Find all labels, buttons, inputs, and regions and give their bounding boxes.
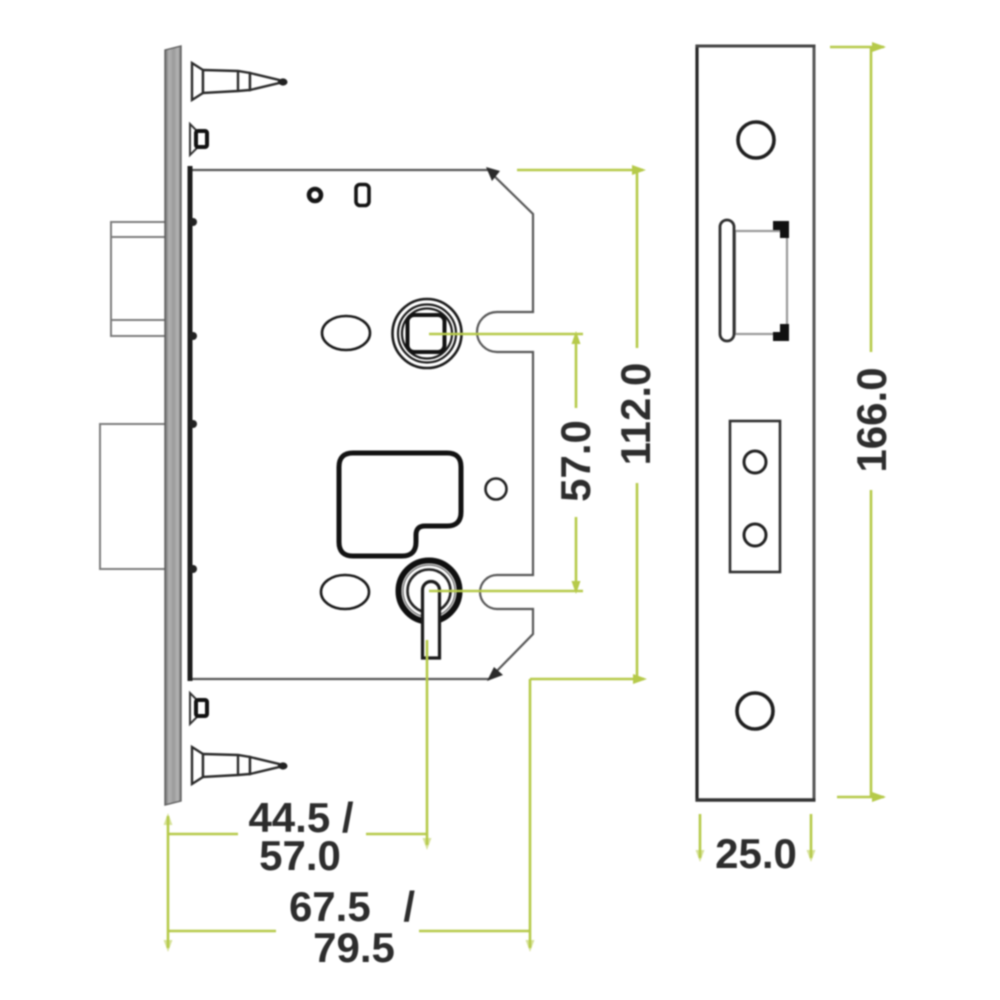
deadbolt aperture (730, 421, 780, 572)
bottom screw hole (737, 693, 773, 729)
top screw hole (738, 122, 774, 158)
top fixing spike (192, 63, 279, 100)
turn stem (423, 582, 440, 659)
small circle by keyhole (486, 479, 507, 500)
latch bolt (side view) (111, 222, 178, 336)
latch aperture (735, 231, 787, 334)
bathroom turn follower (399, 561, 460, 622)
latch aperture capsule (720, 220, 734, 341)
svg-text:25.0: 25.0 (715, 830, 797, 877)
bottom fixing spike (192, 747, 279, 784)
bottom retaining clip (190, 693, 197, 724)
lock case outline (190, 170, 533, 679)
chamfer arrow top (486, 167, 500, 181)
deadbolt (side view) (100, 424, 178, 569)
svg-text:57.0: 57.0 (552, 420, 599, 502)
dimension 166.0 (830, 47, 884, 797)
deadbolt pivot dots (189, 420, 197, 428)
dimension 57.0 (429, 334, 583, 591)
dimension 112.0 (517, 170, 644, 679)
lower oval hole (321, 575, 369, 609)
svg-text:57.0: 57.0 (259, 832, 341, 879)
square spindle follower (393, 299, 462, 368)
latch bolt pivot dots (189, 218, 197, 226)
svg-text:79.5: 79.5 (313, 924, 395, 971)
spindle oval hole (322, 316, 370, 350)
dimension 44.5/57.0 (168, 640, 427, 948)
latch corner bracket top (773, 221, 789, 238)
top retaining clip (190, 124, 197, 155)
dimension 25.0 (700, 814, 811, 858)
faceplate front view (697, 46, 814, 800)
svg-text:166.0: 166.0 (848, 367, 895, 472)
chamfer arrow bottom (487, 667, 503, 681)
faceplate side view (forend bar) (165, 46, 181, 805)
deadbolt aperture hole 1 (744, 451, 766, 473)
dimension 67.5/79.5 (168, 679, 530, 948)
keyhole P-shaped cutout (339, 453, 461, 556)
small rivet circle top (309, 189, 321, 201)
small stump top (356, 185, 369, 206)
svg-text:67.5 /: 67.5 / (289, 883, 415, 930)
deadbolt aperture hole 2 (744, 524, 766, 546)
svg-text:112.0: 112.0 (612, 363, 659, 466)
case front wall (thick line at faceplate) (188, 166, 193, 681)
latch corner bracket bottom (773, 324, 789, 341)
